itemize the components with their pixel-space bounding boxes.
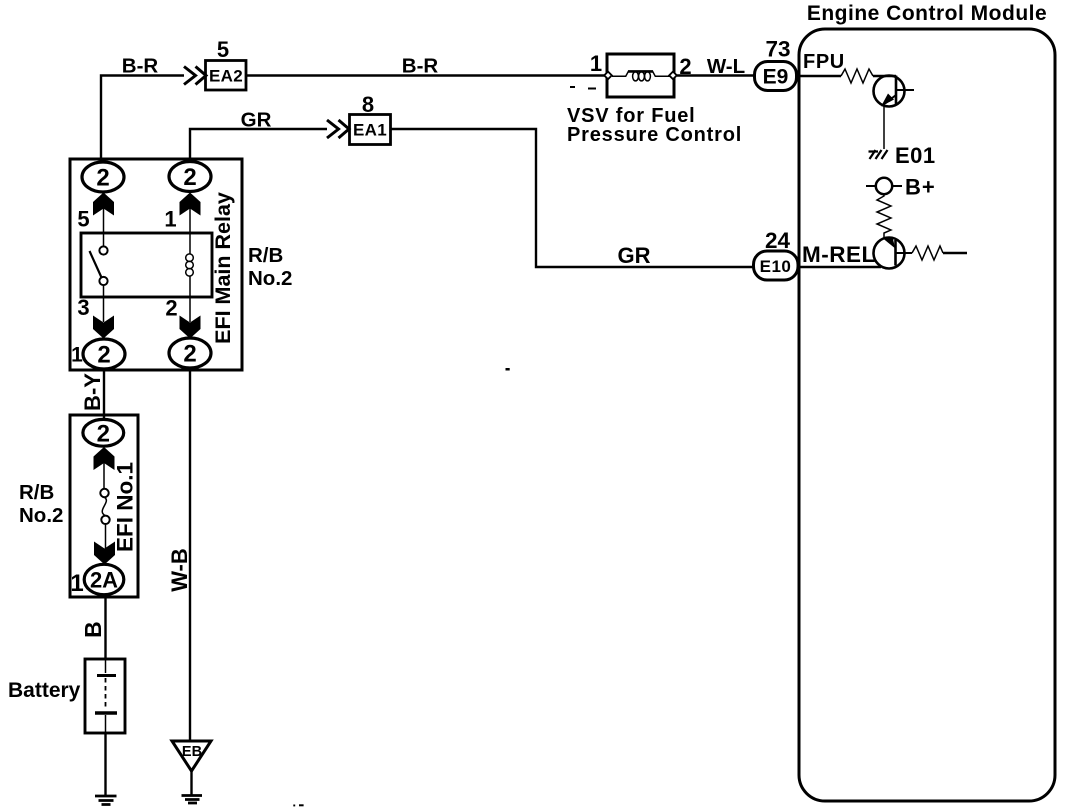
resistor at FPU input [841, 69, 873, 83]
wire W-L from VSV pin 2 to connector E9 [677, 74, 755, 76]
wire B-Y relay to EFI No.1 fuse [103, 369, 105, 419]
svg-text:E10: E10 [760, 257, 792, 276]
ground point EB (triangle) [172, 741, 211, 771]
svg-text:E9: E9 [763, 66, 789, 89]
ECM outline box [799, 29, 1055, 801]
arrow up (pin 1) [180, 193, 201, 216]
svg-text:EFI Main Relay: EFI Main Relay [211, 192, 235, 344]
svg-text:B-R: B-R [122, 55, 159, 78]
junction block EA2 [206, 61, 247, 91]
VSV pin 2 terminal diamond [669, 72, 677, 80]
svg-text:2: 2 [183, 341, 196, 368]
wire W-B relay to EB [189, 368, 191, 741]
svg-text:E01: E01 [895, 143, 936, 168]
fuse bottom connector terminal 2A [84, 564, 124, 594]
svg-text:R/B: R/B [19, 481, 54, 504]
svg-text:R/B: R/B [248, 244, 283, 267]
stray scan dashes [570, 86, 575, 88]
connector chevrons into EA1 [327, 120, 349, 138]
svg-text:EA2: EA2 [209, 67, 243, 86]
junction block EA1 [350, 115, 391, 145]
wire Q1 emitter to ground E01 [883, 106, 885, 149]
arrow up (fuse top) [94, 447, 115, 470]
wire GR from EA1 to connector E10 [391, 129, 755, 267]
arrow down (pin 3) [103, 297, 105, 322]
svg-text:W-B: W-B [167, 548, 192, 592]
svg-text:EB: EB [182, 744, 202, 760]
svg-text:5: 5 [77, 207, 89, 232]
relay top-right connector terminal 2 [169, 162, 211, 192]
svg-text:W-L: W-L [707, 55, 745, 78]
battery cell symbol [105, 659, 107, 673]
svg-text:B-R: B-R [402, 55, 439, 78]
svg-text:2: 2 [97, 420, 110, 447]
relay block R/B No.2 outline [70, 159, 242, 370]
connector E9 [755, 62, 797, 91]
resistor below B+ [877, 194, 891, 238]
relay coil [189, 233, 191, 254]
svg-text:2: 2 [165, 296, 177, 321]
stray mark near relay [506, 368, 510, 371]
relay switch contact [103, 233, 105, 247]
svg-text:Battery: Battery [8, 679, 81, 702]
svg-text:2A: 2A [90, 568, 118, 593]
wire EB to ground [190, 771, 192, 795]
arrow down (pin 2) [189, 297, 191, 322]
ground (battery) [95, 796, 117, 805]
relay bottom-left connector terminal 2 [83, 339, 125, 369]
svg-text:2: 2 [183, 164, 196, 191]
svg-text:Pressure Control: Pressure Control [567, 124, 742, 146]
svg-text:1: 1 [70, 570, 83, 597]
wire from resistor to line end [943, 252, 967, 254]
resistor at Q2 collector [912, 246, 943, 260]
transistor Q2 (M-REL driver) [874, 238, 905, 269]
svg-text:5: 5 [217, 37, 229, 62]
VSV internal coil symbol [612, 71, 670, 76]
transistor Q1 (FPU driver) [874, 76, 905, 107]
fuse block EFI No.1 outline [70, 415, 138, 597]
wire B-R from EA2 to VSV pin 1 [246, 74, 606, 76]
svg-text:No.2: No.2 [248, 267, 292, 290]
svg-text:1: 1 [590, 51, 602, 76]
connector E10 [754, 251, 799, 280]
wire B-R vertical from relay pin 5 terminal up and right to EA2 [101, 76, 184, 164]
ground (EB) [182, 796, 203, 804]
svg-text:EFI No.1: EFI No.1 [113, 462, 138, 552]
connector chevrons into EA2 [184, 67, 206, 85]
relay top-left connector terminal 2 [82, 162, 124, 192]
svg-text:B+: B+ [905, 175, 936, 200]
fuse top connector terminal 2 [83, 419, 124, 446]
battery box [85, 659, 125, 733]
svg-text:GR: GR [618, 243, 651, 268]
wire battery to ground [104, 733, 106, 795]
svg-text:B-Y: B-Y [80, 373, 105, 411]
wire E10 to Q2 base [797, 266, 881, 268]
svg-text:EA1: EA1 [353, 121, 387, 140]
svg-text:1: 1 [71, 344, 83, 367]
svg-text:2: 2 [97, 342, 110, 369]
svg-text:1: 1 [164, 207, 176, 232]
svg-text:B: B [80, 621, 106, 638]
VSV for Fuel Pressure Control component box [607, 54, 674, 97]
svg-text:3: 3 [77, 295, 89, 320]
arrow down (fuse bottom) [94, 542, 115, 565]
wire GR from relay pin 1 terminal to EA1 [190, 129, 327, 162]
relay bottom-right connector terminal 2 [169, 338, 211, 368]
svg-text:GR: GR [241, 109, 272, 132]
svg-text:M-REL: M-REL [802, 242, 876, 267]
ground E01 (hatch) [869, 150, 888, 159]
svg-text:FPU: FPU [803, 51, 845, 73]
svg-text:24: 24 [765, 228, 791, 253]
B+ terminal [866, 185, 902, 187]
arrow up (pin 5) [93, 193, 114, 216]
stray marks bottom edge [293, 805, 295, 807]
VSV pin 1 terminal diamond [604, 72, 612, 80]
wire resistor to transistor base [873, 75, 896, 77]
svg-text:Engine Control Module: Engine Control Module [807, 2, 1047, 25]
svg-text:2: 2 [96, 165, 109, 192]
svg-text:73: 73 [765, 37, 790, 62]
svg-text:8: 8 [362, 92, 374, 117]
wire B fuse to battery [104, 595, 106, 660]
transistor Q1 collector stub [896, 89, 914, 91]
relay inner box [81, 233, 212, 297]
transistor Q2 collector stub [896, 252, 913, 254]
wire from E9 into ECM [796, 75, 841, 77]
svg-text:No.2: No.2 [19, 504, 63, 527]
fuse EFI No.1 element [100, 489, 108, 497]
